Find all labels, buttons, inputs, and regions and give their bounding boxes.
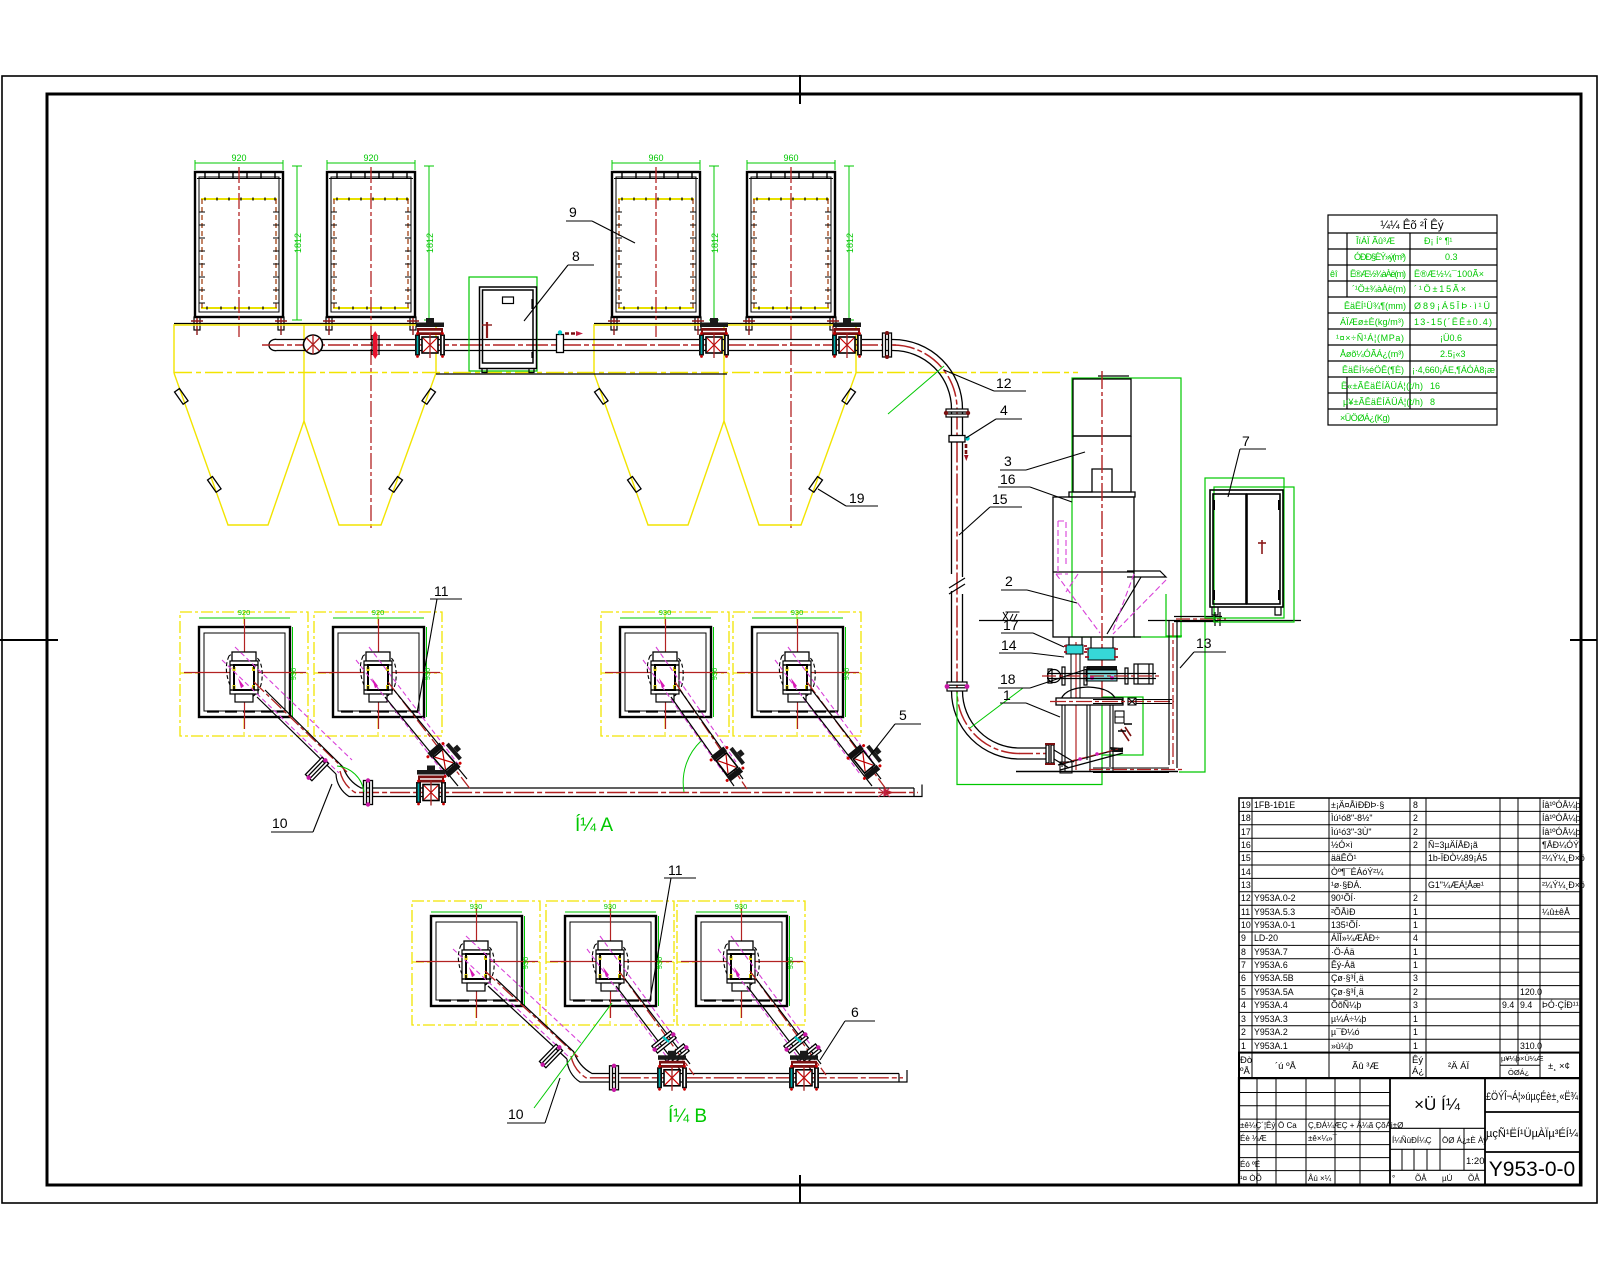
param table grid	[1328, 215, 1497, 425]
svg-text:Ë®Æ½¾àÀë(m): Ë®Æ½¾àÀë(m)	[1350, 269, 1406, 279]
svg-text:Ðò: Ðò	[1240, 1055, 1252, 1066]
param table green text	[1330, 236, 1495, 423]
svg-text:Y953A.0-2: Y953A.0-2	[1254, 893, 1296, 903]
svg-text:Çø·§³Í¸ä: Çø·§³Í¸ä	[1331, 987, 1364, 997]
svg-text:Ö Ca: Ö Ca	[1278, 1121, 1297, 1130]
elbow to riser	[893, 340, 1046, 760]
label 7	[1228, 433, 1266, 497]
discharge chute	[1058, 724, 1132, 770]
label 10 A	[271, 784, 332, 832]
plate centerline	[1050, 701, 1174, 703]
signature grid	[1239, 1093, 1390, 1171]
silo item 3 top box	[1069, 376, 1135, 497]
ground line right of silo	[1148, 620, 1301, 622]
floor dashdot yellow	[174, 372, 1078, 374]
label 16	[998, 471, 1072, 502]
riser flange lower	[945, 682, 970, 691]
svg-text:1FB-1Ð1E: 1FB-1Ð1E	[1254, 800, 1295, 810]
pipe joint red	[372, 331, 379, 359]
B flange on pipe	[610, 1064, 619, 1092]
svg-text:µÚ: µÚ	[1442, 1174, 1453, 1183]
svg-text:2: 2	[1005, 573, 1013, 589]
svg-text:2: 2	[1413, 827, 1418, 837]
label 13	[1180, 635, 1226, 668]
svg-text:Y953A.2: Y953A.2	[1254, 1027, 1288, 1037]
cabinet 7 red handle	[1258, 540, 1266, 554]
flange pair near elbow	[883, 331, 892, 359]
svg-text:µ¼Á÷¼þ: µ¼Á÷¼þ	[1331, 1014, 1366, 1024]
svg-text:4: 4	[1241, 1000, 1246, 1010]
svg-text:120.0: 120.0	[1520, 987, 1542, 997]
svg-text:3: 3	[1241, 1014, 1246, 1024]
svg-text:½Ó×ì: ½Ó×ì	[1331, 840, 1353, 850]
svg-text:ÖØÁ¿: ÖØÁ¿	[1508, 1068, 1530, 1077]
svg-text:930: 930	[521, 957, 530, 970]
svg-text:16: 16	[1000, 471, 1016, 487]
svg-text:4: 4	[1000, 402, 1008, 418]
svg-text:14: 14	[1001, 637, 1017, 653]
station A1	[180, 612, 308, 736]
leg box	[1115, 711, 1124, 723]
label 1	[1000, 687, 1060, 717]
cabinet 7	[1210, 490, 1283, 607]
svg-text:7: 7	[1241, 960, 1246, 970]
svg-text:×Ü Í¼: ×Ü Í¼	[1414, 1095, 1461, 1114]
A flange on pipe	[364, 778, 373, 806]
svg-text:16: 16	[1241, 840, 1251, 850]
pipe 13 vertical	[1169, 612, 1222, 768]
red extension ticks below boxes	[191, 318, 839, 335]
svg-text:²ÕÅìÐ: ²ÕÅìÐ	[1331, 907, 1355, 917]
svg-text:±ê×¼»¯: ±ê×¼»¯	[1308, 1134, 1338, 1143]
svg-text:²¼Ý¼¸Ð×ö: ²¼Ý¼¸Ð×ö	[1542, 853, 1585, 863]
svg-text:2: 2	[1413, 893, 1418, 903]
svg-text:6: 6	[851, 1004, 859, 1020]
svg-text:Ãû ³Æ: Ãû ³Æ	[1352, 1061, 1379, 1072]
label 5	[869, 707, 921, 757]
riser fitting 4	[949, 436, 970, 462]
svg-text:930: 930	[470, 902, 483, 911]
silo neck center	[1091, 637, 1113, 648]
svg-text:ÎïÁÏ Ãû³Æ: ÎïÁÏ Ãû³Æ	[1355, 236, 1395, 246]
station dims A	[199, 618, 846, 717]
svg-text:Á¿: Á¿	[1412, 1066, 1424, 1077]
svg-text:920: 920	[231, 153, 246, 163]
svg-text:ÁÏÎ»¼ÆÅÐ÷: ÁÏÎ»¼ÆÅÐ÷	[1331, 933, 1380, 943]
svg-text:18: 18	[1000, 671, 1016, 687]
svg-text:±ê¼Ç´¦Êý: ±ê¼Ç´¦Êý	[1240, 1121, 1275, 1130]
svg-text:1: 1	[1413, 947, 1418, 957]
B diag station2	[587, 936, 694, 1075]
svg-text:1:20: 1:20	[1466, 1156, 1485, 1167]
svg-text:8: 8	[572, 248, 580, 264]
svg-text:µçÑ¹ËÍ¹ÜµÀÏµ³ÉÍ¼: µçÑ¹ËÍ¹ÜµÀÏµ³ÉÍ¼	[1486, 1127, 1579, 1140]
svg-text:1: 1	[1413, 907, 1418, 917]
green leader 18	[970, 688, 1023, 728]
svg-text:µ¥¼þ: µ¥¼þ	[1501, 1054, 1520, 1063]
hopper group B	[594, 324, 856, 526]
filter box 9 (no.1)	[194, 172, 284, 330]
ball fitting	[304, 335, 323, 354]
svg-text:Éó ºË: Éó ºË	[1240, 1160, 1260, 1169]
svg-text:Y953A.7: Y953A.7	[1254, 947, 1288, 957]
station A3	[601, 612, 729, 736]
svg-text:11: 11	[434, 583, 449, 599]
pipe break symbol	[949, 578, 965, 594]
svg-text:Ìú¹ó8"-8½": Ìú¹ó8"-8½"	[1331, 813, 1372, 823]
bom texts	[1241, 800, 1585, 1051]
rotary feeder	[1086, 666, 1117, 681]
frame tick right	[1570, 639, 1597, 641]
svg-text:15: 15	[992, 491, 1008, 507]
flange at pump inlet	[1045, 744, 1055, 764]
svg-text:930: 930	[604, 902, 617, 911]
svg-text:1: 1	[1413, 920, 1418, 930]
svg-text:8: 8	[1241, 947, 1246, 957]
coupling right	[1128, 698, 1136, 705]
svg-text:7: 7	[1242, 433, 1250, 449]
svg-text:Y953A.5.3: Y953A.5.3	[1254, 907, 1295, 917]
svg-text:2.5¡«3: 2.5¡«3	[1440, 349, 1466, 359]
svg-text:°: °	[1392, 1174, 1395, 1183]
cabinet 8	[480, 287, 537, 369]
svg-text:930: 930	[659, 608, 672, 617]
svg-text:£ÖÝÎ¬Á¦»úµçÉè±¸«Ë¾: £ÖÝÎ¬Á¦»úµçÉè±¸«Ë¾	[1486, 1090, 1579, 1103]
svg-text:×ÜÖØÁ¿(Kg): ×ÜÖØÁ¿(Kg)	[1340, 413, 1390, 423]
svg-text:920: 920	[238, 608, 251, 617]
svg-text:17: 17	[1241, 827, 1251, 837]
bom grid	[1239, 798, 1580, 1053]
station A2	[314, 612, 442, 736]
flex conn 17/14 left	[1066, 645, 1083, 654]
svg-text:12: 12	[1241, 893, 1251, 903]
B collection pipe	[567, 1052, 907, 1082]
svg-text:16: 16	[1430, 381, 1440, 391]
svg-text:4: 4	[1413, 933, 1418, 943]
A diag station2	[356, 647, 471, 790]
silo centerline	[1101, 371, 1103, 700]
svg-text:14: 14	[1241, 867, 1251, 877]
svg-text:»ù¼þ: »ù¼þ	[1331, 1041, 1353, 1051]
label 15	[959, 491, 1022, 535]
svg-text:¼û±êÅ: ¼û±êÅ	[1542, 907, 1570, 917]
svg-text:1812: 1812	[293, 233, 303, 253]
svg-text:11: 11	[1241, 907, 1250, 917]
B valve on pipe 2	[789, 1051, 819, 1091]
svg-text:3: 3	[1413, 1000, 1418, 1010]
svg-text:Åøõ¼ÓÃÁ¿(m³): Åøõ¼ÓÃÁ¿(m³)	[1340, 349, 1404, 359]
left down tube	[1071, 654, 1080, 700]
silo internal cone magenta	[1056, 521, 1166, 634]
svg-text:±È Àý: ±È Àý	[1466, 1136, 1487, 1145]
svg-text:9.4: 9.4	[1502, 1000, 1514, 1010]
svg-text:êî: êî	[1330, 269, 1338, 279]
svg-text:11: 11	[668, 862, 683, 878]
right cells	[1485, 1112, 1580, 1152]
label 8	[524, 248, 594, 321]
svg-text:8: 8	[1430, 397, 1435, 407]
pipe centerline	[262, 344, 896, 346]
svg-text:1: 1	[1413, 960, 1418, 970]
svg-text:930: 930	[786, 957, 795, 970]
svg-text:9: 9	[569, 204, 577, 220]
main conveying pipe	[269, 339, 893, 350]
hopper group A	[174, 324, 436, 526]
B valve on pipe 1	[657, 1051, 687, 1091]
svg-text:·Ö-Áä: ·Ö-Áä	[1331, 947, 1355, 957]
svg-text:²Ä ÁÏ: ²Ä ÁÏ	[1448, 1061, 1469, 1072]
inline fitting near cabinet	[557, 330, 584, 352]
svg-text:10: 10	[1241, 920, 1251, 930]
svg-text:13: 13	[1241, 880, 1251, 890]
svg-text:Y953A.3: Y953A.3	[1254, 1014, 1288, 1024]
cabinet 8 green border	[469, 277, 537, 371]
svg-text:¡Ü0.6: ¡Ü0.6	[1440, 333, 1462, 343]
svg-text:Y953A.5B: Y953A.5B	[1254, 973, 1294, 983]
svg-text:2: 2	[1241, 1027, 1246, 1037]
svg-text:Ð¡ Í° ¶¹: Ð¡ Í° ¶¹	[1424, 236, 1452, 246]
svg-text:13-15(´ËÊ±0.4): 13-15(´ËÊ±0.4)	[1414, 317, 1492, 327]
label 19	[818, 489, 878, 506]
svg-text:Y953A.5A: Y953A.5A	[1254, 987, 1294, 997]
svg-text:Í¼ÑùÐÍ¼Ç: Í¼ÑùÐÍ¼Ç	[1392, 1136, 1432, 1145]
svg-text:Y953A.6: Y953A.6	[1254, 960, 1288, 970]
svg-text:±¡Ä¤ÅìÐÐÞ·§: ±¡Ä¤ÅìÐÐÞ·§	[1331, 800, 1384, 810]
A collection pipe	[336, 767, 922, 797]
svg-text:Íâ¹ºÓÅ¼þ: Íâ¹ºÓÅ¼þ	[1542, 827, 1581, 837]
svg-text:ÁÏÆø±È(kg/m³): ÁÏÆø±È(kg/m³)	[1340, 317, 1404, 327]
bom header texts	[1240, 1054, 1570, 1077]
station B1	[412, 901, 540, 1025]
svg-text:×Ü¼Æ: ×Ü¼Æ	[1520, 1054, 1544, 1063]
label 4	[966, 402, 1022, 438]
valve cluster 2 on pipe	[699, 318, 729, 358]
svg-text:930: 930	[842, 668, 851, 681]
svg-text:G1"¼ÆÁ¦Åæ¹: G1"¼ÆÁ¦Åæ¹	[1428, 880, 1484, 890]
svg-text:1812: 1812	[710, 233, 720, 253]
svg-text:17: 17	[1003, 617, 1019, 633]
svg-text:Íâ¹ºÓÅ¼þ: Íâ¹ºÓÅ¼þ	[1542, 800, 1581, 810]
label 9	[566, 204, 635, 243]
svg-text:19: 19	[1241, 800, 1251, 810]
bom header band	[1239, 1053, 1580, 1079]
svg-text:18: 18	[1241, 813, 1251, 823]
svg-text:10: 10	[272, 815, 288, 831]
frame tick top	[799, 75, 801, 104]
filter box 9 (no.3)	[611, 172, 701, 330]
silo spout	[1107, 571, 1166, 634]
svg-text:±¸ ×¢: ±¸ ×¢	[1548, 1061, 1570, 1072]
svg-text:1b-ÏÐÒ¼89¡Á5: 1b-ÏÐÒ¼89¡Á5	[1428, 853, 1487, 863]
svg-text:¹¤×÷Ñ¹Á¦(MPa): ¹¤×÷Ñ¹Á¦(MPa)	[1336, 333, 1404, 343]
svg-text:Éè ¼Æ: Éè ¼Æ	[1240, 1134, 1267, 1143]
svg-text:¡·4,660¡ÁE,¶ÁÓÀ8¡æ: ¡·4,660¡ÁE,¶ÁÓÀ8¡æ	[1412, 365, 1495, 375]
svg-text:90¹ÕÍ·: 90¹ÕÍ·	[1331, 893, 1356, 903]
svg-text:Ë«±ÃÊäËÍÄÜÁ¦(t/h): Ë«±ÃÊäËÍÄÜÁ¦(t/h)	[1341, 381, 1423, 391]
pump base	[1060, 762, 1072, 773]
svg-text:9: 9	[1241, 933, 1246, 943]
red centerlines boxes	[239, 167, 791, 529]
svg-text:12: 12	[996, 375, 1012, 391]
svg-text:930: 930	[710, 668, 719, 681]
svg-text:930: 930	[289, 668, 298, 681]
label 11 A	[417, 583, 462, 713]
label 14	[999, 637, 1064, 657]
svg-text:Í¼ B: Í¼ B	[668, 1106, 707, 1127]
svg-text:Ç,ÐÁ¼ÆÇ + Â¼ã ÇõÁi±Ø: Ç,ÐÁ¼ÆÇ + Â¼ã ÇõÁi±Ø	[1308, 1121, 1403, 1130]
svg-text:ÕõÑ¼þ: ÕõÑ¼þ	[1331, 1000, 1361, 1010]
valve cluster 1 on pipe	[415, 318, 445, 358]
label 10 B	[507, 1078, 560, 1123]
valve cluster 3 on pipe	[832, 318, 862, 358]
green dims boxes	[195, 160, 854, 320]
station B2	[546, 901, 674, 1025]
svg-text:1: 1	[1413, 1027, 1418, 1037]
svg-text:960: 960	[648, 153, 663, 163]
A diag station1	[222, 647, 352, 782]
svg-text:ÖØ Á¿: ÖØ Á¿	[1442, 1136, 1467, 1145]
flex conn center	[1088, 648, 1115, 660]
svg-text:960: 960	[783, 153, 798, 163]
svg-text:2: 2	[1413, 987, 1418, 997]
svg-text:¼¼ Êõ ²Î Êý: ¼¼ Êõ ²Î Êý	[1380, 219, 1444, 232]
frame tick bottom	[799, 1175, 801, 1203]
base line	[1016, 771, 1178, 773]
station A4	[733, 612, 861, 736]
svg-text:²¼Ý¼¸Ð×ö: ²¼Ý¼¸Ð×ö	[1542, 880, 1585, 890]
cabinet 8 red symbol	[482, 322, 492, 338]
svg-text:135¹ÕÍ·: 135¹ÕÍ·	[1331, 920, 1361, 930]
svg-text:8: 8	[1413, 800, 1418, 810]
A diag station4	[775, 647, 890, 789]
frame tick left	[0, 639, 58, 641]
svg-text:10: 10	[508, 1106, 524, 1122]
svg-text:ÓÐÐ§ÈÝ»ý(m³): ÓÐÐ§ÈÝ»ý(m³)	[1354, 252, 1406, 262]
A green arcs	[337, 766, 364, 792]
svg-text:Y953A.0-1: Y953A.0-1	[1254, 920, 1296, 930]
label 18	[998, 668, 1090, 688]
label 2	[1001, 573, 1077, 603]
svg-text:LD-20: LD-20	[1254, 933, 1278, 943]
pump table plate	[1056, 698, 1123, 705]
label 11 B	[650, 862, 696, 1000]
svg-text:1: 1	[1003, 687, 1011, 703]
filter box 9 (no.2)	[326, 172, 416, 330]
B diag station1	[453, 936, 583, 1069]
svg-text:920: 920	[363, 153, 378, 163]
svg-text:15: 15	[1241, 853, 1251, 863]
svg-text:ÕÅ: ÕÅ	[1415, 1174, 1427, 1183]
svg-text:9.4: 9.4	[1520, 1000, 1532, 1010]
svg-text:13: 13	[1196, 635, 1212, 651]
B diag station3	[718, 936, 826, 1075]
green border pump area	[957, 692, 1102, 785]
svg-text:µ¥±ÃÊäËÍÄÜÁ¦(t/h): µ¥±ÃÊäËÍÄÜÁ¦(t/h)	[1343, 397, 1423, 407]
svg-text:¹ø·§ÐÁ.: ¹ø·§ÐÁ.	[1331, 880, 1362, 890]
label 17	[1001, 617, 1064, 647]
svg-text:2: 2	[1413, 840, 1418, 850]
svg-text:ÊäËÍ½éÖÊ(¶È): ÊäËÍ½éÖÊ(¶È)	[1342, 365, 1404, 375]
cabinet 7 green border	[1205, 478, 1284, 618]
svg-text:1: 1	[1241, 1041, 1246, 1051]
svg-text:920: 920	[372, 608, 385, 617]
svg-text:6: 6	[1241, 973, 1246, 983]
svg-text:2: 2	[1413, 813, 1418, 823]
svg-text:930: 930	[791, 608, 804, 617]
svg-text:Êý-Áã: Êý-Áã	[1331, 960, 1355, 970]
svg-text:5: 5	[899, 707, 907, 723]
silo neck left	[1069, 637, 1082, 645]
svg-text:ääÊÖ¹: ääÊÖ¹	[1331, 853, 1356, 863]
svg-text:¹¤ ÒÕ: ¹¤ ÒÕ	[1240, 1174, 1262, 1183]
svg-text:Êý: Êý	[1412, 1055, 1423, 1066]
svg-text:Åú ×¼: Åú ×¼	[1308, 1174, 1332, 1183]
svg-text:5: 5	[1241, 987, 1246, 997]
middle grid	[1390, 1128, 1485, 1170]
svg-text:Y953A.1: Y953A.1	[1254, 1041, 1288, 1051]
B green leader	[534, 1003, 612, 1108]
svg-text:ÕÅ: ÕÅ	[1468, 1174, 1480, 1183]
svg-text:1: 1	[1413, 1041, 1418, 1051]
svg-text:Y953A.4: Y953A.4	[1254, 1000, 1288, 1010]
filter box 9 (no.4)	[746, 172, 836, 330]
green border discharge gate	[1102, 697, 1143, 755]
ground marker	[1003, 612, 1020, 620]
svg-text:Ñ=3µÄÍÅÐ¡ã: Ñ=3µÄÍÅÐ¡ã	[1428, 840, 1478, 850]
svg-text:3: 3	[1004, 453, 1012, 469]
svg-text:930: 930	[735, 902, 748, 911]
station B3	[677, 901, 805, 1025]
svg-text:µ¯Ð¼ó: µ¯Ð¼ó	[1331, 1027, 1360, 1037]
riser centerline	[893, 345, 1020, 754]
title block texts	[1240, 1090, 1579, 1183]
pump legs	[1062, 705, 1113, 771]
svg-text:3: 3	[1413, 973, 1418, 983]
svg-text:Çø·§³Í¸ä: Çø·§³Í¸ä	[1331, 973, 1364, 983]
svg-text:ÞÓ·ÇÍÐ¹¹: ÞÓ·ÇÍÐ¹¹	[1542, 1000, 1579, 1010]
silo body 16	[1053, 497, 1141, 637]
svg-text:Ø89¡Á5ÎÞ·ì¹Ü: Ø89¡Á5ÎÞ·ì¹Ü	[1414, 301, 1490, 311]
A diag station3	[643, 647, 753, 789]
svg-text:¶ÅÐ¼ÓÝ¹: ¶ÅÐ¼ÓÝ¹	[1542, 840, 1582, 850]
svg-text:310.0: 310.0	[1520, 1041, 1542, 1051]
inlet slope to chute	[1054, 750, 1074, 768]
svg-text:Ìú¹ó3"-3Ù": Ìú¹ó3"-3Ù"	[1331, 827, 1371, 837]
green leader elbow	[888, 366, 944, 414]
svg-text:Í¼ A: Í¼ A	[575, 815, 613, 836]
svg-text:´ú ºÅ: ´ú ºÅ	[1275, 1061, 1297, 1072]
svg-text:Òº¶¯ÉÁóÝ²¼: Òº¶¯ÉÁóÝ²¼	[1331, 867, 1384, 877]
svg-text:19: 19	[849, 490, 865, 506]
label 6	[820, 1004, 875, 1060]
svg-text:Íâ¹ºÓÅ¼þ: Íâ¹ºÓÅ¼þ	[1542, 813, 1581, 823]
pump dome 18	[1060, 687, 1117, 703]
label 3	[1000, 452, 1085, 470]
svg-text:Ë®Æ½¼¯100Ã×: Ë®Æ½¼¯100Ã×	[1414, 269, 1484, 279]
floor line under cabinet8	[436, 373, 727, 375]
svg-text:´¹Ö±¾àÀë(m): ´¹Ö±¾àÀë(m)	[1352, 284, 1406, 294]
ground line left of silo	[979, 620, 1053, 622]
green border silo	[1072, 378, 1181, 637]
svg-text:´¹Ö±15Ã×: ´¹Ö±15Ã×	[1414, 284, 1466, 294]
A valve on pipe	[416, 766, 446, 806]
A pipe end red arrow	[878, 788, 892, 797]
riser flange 12	[944, 409, 970, 417]
svg-text:ÊäËÍ¹Ü¾¶(mm): ÊäËÍ¹Ü¾¶(mm)	[1344, 301, 1406, 311]
svg-text:Y953-0-0: Y953-0-0	[1489, 1158, 1575, 1181]
feeder shaft	[1047, 664, 1156, 685]
svg-text:ºÅ: ºÅ	[1240, 1066, 1250, 1077]
